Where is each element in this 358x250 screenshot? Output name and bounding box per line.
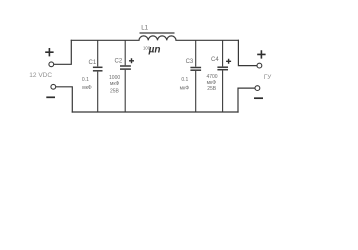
terminal output minus circle [255,86,260,91]
capacitor C1 [93,40,103,112]
capacitor C4 [217,40,228,112]
wire top rail right segment [176,39,238,41]
terminal output plus circle [257,63,262,68]
inductor L1 [139,33,176,40]
svg-text:мкФ: мкФ [180,85,190,91]
wire input minus branch [56,87,72,112]
minus sign input [46,96,55,98]
svg-text:C2: C2 [115,59,123,65]
wire output plus branch [238,40,256,65]
svg-text:0.1: 0.1 [82,77,89,83]
svg-text:1000: 1000 [109,75,120,81]
plus sign C2 [129,58,134,63]
svg-text:C4: C4 [211,57,219,63]
svg-text:мкФ: мкФ [82,85,92,91]
value L1 100uH [143,45,160,56]
plus sign input [45,48,53,56]
svg-text:µn: µn [148,45,161,56]
svg-text:C3: C3 [186,59,194,65]
svg-text:ГУ: ГУ [264,74,272,81]
svg-text:12 VDC: 12 VDC [29,72,52,79]
wire output minus branch [238,88,255,112]
capacitor C3 [190,40,201,112]
plus sign output [257,50,265,58]
wire bottom rail [72,111,238,113]
svg-text:C1: C1 [89,60,97,66]
svg-text:25В: 25В [110,89,120,95]
terminal input plus circle [49,62,54,67]
svg-text:0.1: 0.1 [181,77,188,83]
terminal input minus circle [51,84,56,89]
svg-text:мкФ: мкФ [110,81,120,87]
wire input plus branch [54,40,71,64]
svg-text:25В: 25В [207,86,217,92]
minus sign output [254,97,263,99]
wire top rail left segment [71,39,139,41]
capacitor C2 [120,40,131,112]
plus sign C4 [226,59,231,64]
svg-text:L1: L1 [141,25,148,32]
